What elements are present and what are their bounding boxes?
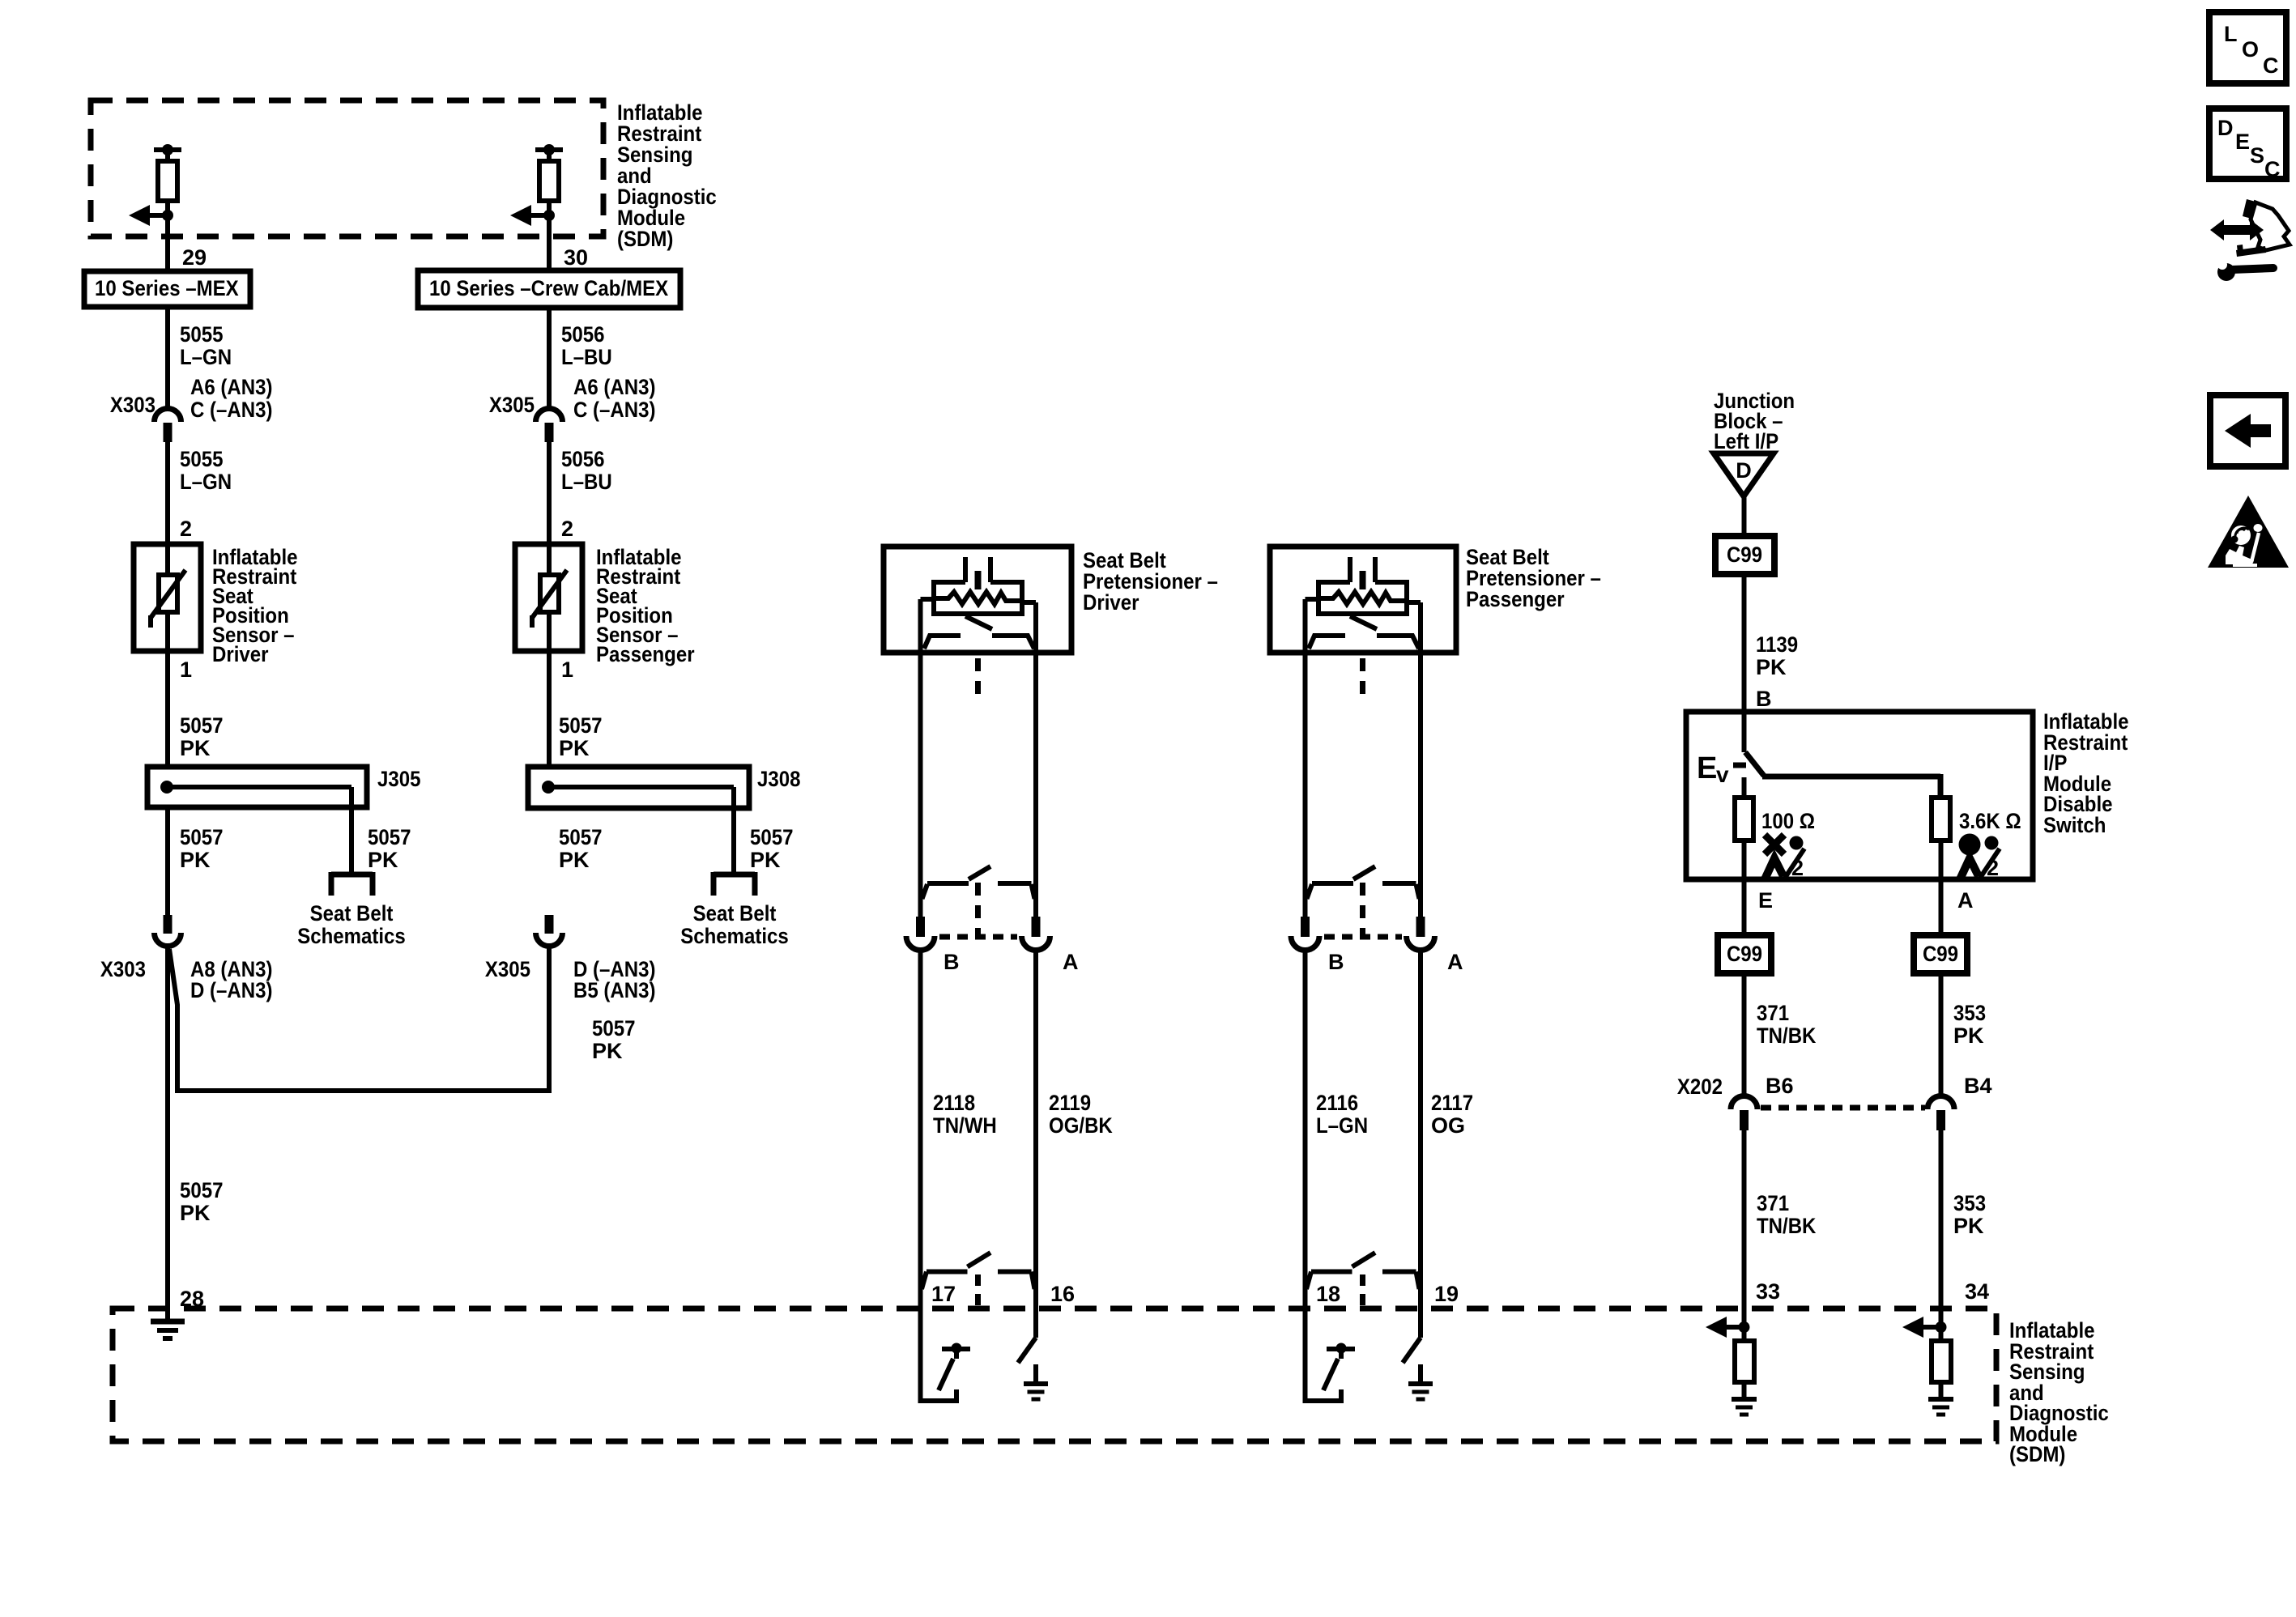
dashed link B-A passenger [1324, 934, 1402, 940]
svg-text:Schematics: Schematics [297, 924, 406, 948]
svg-text:C99: C99 [1727, 942, 1762, 966]
connector cup B driver [906, 936, 935, 951]
svg-text:PK: PK [1953, 1023, 1984, 1048]
label 5055 L-GN upper [180, 322, 232, 369]
svg-text:5055: 5055 [180, 447, 224, 471]
svg-text:371: 371 [1757, 1001, 1789, 1025]
connector cup A passenger [1407, 936, 1435, 951]
SDM bottom label [2009, 1318, 2109, 1466]
label A6 (AN3) C (-AN3) passenger [573, 375, 656, 422]
svg-text:(SDM): (SDM) [617, 227, 673, 251]
svg-text:A: A [1447, 950, 1463, 974]
wire 1139 [1742, 574, 1747, 752]
svg-text:L–BU: L–BU [561, 470, 612, 494]
svg-text:PK: PK [368, 848, 398, 872]
label 2116 L-GN [1316, 1091, 1368, 1138]
arrow at pin 30 [510, 205, 555, 226]
svg-text:Schematics: Schematics [680, 924, 789, 948]
label 371 TN/BK upper [1757, 1001, 1817, 1048]
wire pretensioner driver B [918, 599, 923, 917]
connector X305 lower [536, 915, 563, 947]
SDM switch pin 17 [939, 1343, 970, 1391]
resistor in SDM pin 30 [535, 144, 563, 201]
svg-text:2116: 2116 [1316, 1091, 1358, 1115]
svg-text:2118: 2118 [933, 1091, 975, 1115]
label 2117 OG [1431, 1091, 1473, 1138]
svg-text:Left I/P: Left I/P [1714, 429, 1778, 453]
svg-text:TN/BK: TN/BK [1757, 1214, 1817, 1238]
connector cup A driver [1022, 936, 1050, 951]
wire J305 to X303 lower [165, 807, 170, 915]
svg-text:5057: 5057 [180, 825, 224, 849]
dashed link X202 [1761, 1105, 1925, 1111]
svg-text:2119: 2119 [1049, 1091, 1091, 1115]
connector X202 B4 [1928, 1096, 1954, 1131]
wire 2117 [1418, 952, 1423, 1338]
resistor at pin 34 [1932, 1341, 1951, 1382]
label 5057 PK below J305 left [180, 825, 224, 872]
disable switch blade [1744, 752, 1941, 798]
wire 5057 driver above splice [165, 651, 170, 767]
airbag icon crossed [1765, 835, 1804, 880]
label 5057 PK driver above splice [180, 713, 224, 760]
SDM switch pin 18 [1323, 1343, 1355, 1391]
svg-text:Driver: Driver [1083, 590, 1139, 615]
svg-text:D: D [1736, 458, 1752, 483]
svg-text:C99: C99 [1727, 543, 1762, 567]
wire 2118 [921, 952, 957, 1401]
SDM top dashed box [91, 100, 603, 236]
svg-text:PK: PK [750, 848, 781, 872]
svg-text:B: B [944, 950, 960, 974]
label 5057 PK below J308 left [559, 825, 603, 872]
box 10 Series -Crew Cab/MEX [418, 270, 680, 308]
svg-text:X305: X305 [485, 957, 530, 981]
squib passenger shorting dashed [1360, 658, 1365, 937]
svg-text:PK: PK [180, 1201, 211, 1225]
svg-text:5057: 5057 [559, 713, 603, 738]
svg-text:5057: 5057 [592, 1016, 636, 1040]
label 2118 TN/WH [933, 1091, 997, 1138]
wire X305 lower to join [547, 946, 552, 1093]
svg-text:29: 29 [182, 245, 207, 270]
svg-text:B: B [1328, 950, 1344, 974]
ground at pin 34 [1928, 1382, 1953, 1415]
svg-text:J308: J308 [757, 767, 801, 791]
DESC icon box [2209, 109, 2286, 181]
arrow at pin 29 [129, 205, 173, 226]
svg-text:Passenger: Passenger [596, 642, 695, 666]
label 371 TN/BK lower [1757, 1191, 1817, 1238]
svg-text:L–BU: L–BU [561, 345, 612, 369]
svg-text:16: 16 [1050, 1282, 1075, 1306]
svg-text:C (–AN3): C (–AN3) [190, 398, 273, 422]
squib driver shorting dashed [975, 658, 981, 937]
connector X303 upper [155, 409, 181, 443]
label 353 PK lower [1953, 1191, 1986, 1238]
seat belt schematics label right [680, 901, 789, 948]
wire 2119 [1033, 952, 1038, 1338]
junction block triangle D [1714, 453, 1774, 496]
svg-text:TN/WH: TN/WH [933, 1113, 997, 1138]
component view icon double arrow [2210, 219, 2264, 240]
seat belt warning triangle [2208, 496, 2289, 568]
splice J308 [528, 767, 749, 808]
wire 371 lower [1742, 1130, 1747, 1341]
wire pretensioner driver A [1033, 602, 1038, 917]
svg-text:C: C [2264, 157, 2281, 181]
svg-text:371: 371 [1757, 1191, 1789, 1215]
ground at pin 19 [1408, 1364, 1433, 1399]
wire J305 to seat belt schematics [349, 807, 354, 874]
svg-text:2: 2 [180, 517, 192, 541]
pretensioner driver label [1083, 548, 1218, 615]
svg-text:33: 33 [1756, 1279, 1780, 1304]
svg-text:PK: PK [559, 736, 590, 760]
SDM bottom dashed box [113, 1308, 1996, 1441]
svg-text:10 Series –MEX: 10 Series –MEX [95, 276, 239, 300]
wire branch to passenger join [169, 949, 549, 1091]
svg-text:B4: B4 [1964, 1074, 1992, 1098]
wire 2116 [1306, 952, 1342, 1401]
wire 5057 passenger above splice [547, 651, 552, 767]
wire 5056 upper [547, 308, 552, 406]
svg-text:5056: 5056 [561, 322, 605, 347]
svg-text:S: S [2250, 143, 2264, 168]
sensor passenger label [596, 545, 695, 666]
svg-text:30: 30 [564, 245, 588, 270]
svg-text:17: 17 [931, 1282, 956, 1306]
wire A [1939, 840, 1944, 935]
wire E [1742, 840, 1747, 935]
label A8 (AN3) D (-AN3) [190, 957, 273, 1002]
label 5057 PK lower left [180, 1178, 224, 1225]
connector pin B passenger [1301, 917, 1310, 937]
sensor driver label [212, 545, 298, 666]
component view icon panel outline [2236, 199, 2290, 257]
svg-text:X303: X303 [100, 957, 146, 981]
pretensioner passenger box [1270, 547, 1456, 653]
svg-text:5057: 5057 [368, 825, 411, 849]
svg-text:1139: 1139 [1756, 632, 1798, 657]
svg-text:C99: C99 [1923, 942, 1958, 966]
svg-text:2: 2 [1791, 856, 1804, 880]
harness switch driver above connectors [922, 866, 1035, 899]
Ev key symbol [1697, 751, 1746, 787]
svg-text:C (–AN3): C (–AN3) [573, 398, 656, 422]
svg-text:PK: PK [1756, 655, 1787, 679]
svg-text:TN/BK: TN/BK [1757, 1023, 1817, 1048]
connector X202 B6 [1731, 1096, 1757, 1131]
svg-text:19: 19 [1434, 1282, 1459, 1306]
wire X303 lower to pin 28 [165, 946, 170, 1321]
svg-text:PK: PK [592, 1039, 623, 1063]
connector C99 top [1715, 536, 1774, 574]
connector C99 A [1914, 935, 1967, 973]
switch at pin 17 [922, 1253, 1035, 1313]
splice J305 [147, 767, 367, 807]
svg-text:PK: PK [180, 848, 211, 872]
svg-text:A: A [1957, 888, 1974, 913]
svg-text:v: v [1716, 762, 1729, 787]
junction block label [1714, 389, 1795, 453]
label 5055 L-GN lower [180, 447, 232, 494]
svg-text:Seat Belt: Seat Belt [693, 901, 777, 926]
svg-text:Seat Belt: Seat Belt [310, 901, 394, 926]
wire 353 lower [1939, 1130, 1944, 1341]
svg-text:E: E [1697, 751, 1717, 785]
resistor 100 ohm [1735, 798, 1753, 840]
svg-text:5057: 5057 [180, 1178, 224, 1202]
label 2119 OG/BK [1049, 1091, 1113, 1138]
label A6 (AN3) C (-AN3) driver [190, 375, 273, 422]
wire J308 to seat belt schematics [731, 808, 736, 874]
SDM contact pin 19 [1403, 1338, 1421, 1363]
label 5056 L-BU upper [561, 322, 612, 369]
svg-text:A6 (AN3): A6 (AN3) [573, 375, 656, 399]
SDM top label [617, 100, 717, 251]
seat belt schematics symbol left [331, 872, 373, 896]
svg-text:5055: 5055 [180, 322, 224, 347]
svg-text:X305: X305 [489, 393, 535, 417]
label 5057 PK below J305 right [368, 825, 411, 872]
LOC icon box [2209, 12, 2286, 83]
svg-text:Driver: Driver [212, 642, 269, 666]
svg-text:PK: PK [180, 736, 211, 760]
connector pin B driver [916, 917, 925, 937]
pretensioner passenger label [1466, 545, 1601, 611]
svg-text:Switch: Switch [2043, 813, 2106, 837]
svg-text:2: 2 [561, 517, 573, 541]
label 5057 PK below J308 right [750, 825, 794, 872]
wire 5056 lower [547, 442, 552, 544]
connector pin A driver [1032, 917, 1041, 937]
svg-text:5057: 5057 [180, 713, 224, 738]
wire 5055 upper [165, 307, 170, 406]
wire pretensioner passenger B [1303, 599, 1308, 917]
resistor in SDM pin 29 [154, 144, 181, 201]
seat position sensor passenger box [515, 544, 582, 651]
ground at pin 33 [1732, 1382, 1757, 1415]
svg-text:J305: J305 [377, 767, 421, 791]
svg-text:353: 353 [1953, 1191, 1986, 1215]
svg-text:5057: 5057 [559, 825, 603, 849]
label D (-AN3) B5 (AN3) [573, 957, 656, 1002]
svg-text:L: L [2224, 22, 2238, 46]
svg-text:5057: 5057 [750, 825, 794, 849]
seat position sensor driver box [134, 544, 201, 651]
svg-text:B6: B6 [1766, 1074, 1794, 1098]
resistor at pin 33 [1735, 1341, 1754, 1382]
disable switch box [1686, 712, 2033, 879]
label 1139 PK [1756, 632, 1798, 679]
harness switch passenger above connectors [1307, 866, 1420, 899]
svg-text:O: O [2242, 37, 2259, 62]
svg-text:10 Series –Crew Cab/MEX: 10 Series –Crew Cab/MEX [429, 276, 668, 300]
arrow at pin 34 [1902, 1317, 1947, 1338]
svg-text:C: C [2263, 53, 2279, 78]
svg-text:PK: PK [1953, 1214, 1984, 1238]
component view icon wrench [2217, 260, 2273, 281]
svg-text:5056: 5056 [561, 447, 605, 471]
connector X303 lower [155, 915, 181, 947]
seat belt schematics label left [297, 901, 406, 948]
airbag icon solid [1959, 834, 2000, 881]
svg-text:E: E [2235, 130, 2250, 154]
connector X305 upper [536, 409, 563, 443]
connector C99 E [1718, 935, 1771, 973]
ground at pin 28 [151, 1321, 185, 1338]
svg-text:353: 353 [1953, 1001, 1986, 1025]
wire 353 upper [1939, 973, 1944, 1096]
resistor 3.6K ohm [1932, 798, 1950, 840]
svg-text:D: D [2217, 116, 2234, 140]
svg-text:100 Ω: 100 Ω [1761, 809, 1815, 833]
svg-text:X202: X202 [1677, 1074, 1723, 1099]
squib passenger [1306, 557, 1421, 649]
label 353 PK upper [1953, 1001, 1986, 1048]
svg-text:1: 1 [180, 657, 192, 682]
label 5056 L-BU lower [561, 447, 612, 494]
svg-text:Passenger: Passenger [1466, 587, 1565, 611]
svg-text:B5 (AN3): B5 (AN3) [573, 978, 656, 1002]
svg-text:OG/BK: OG/BK [1049, 1113, 1113, 1138]
wire 5055 lower [165, 442, 170, 544]
connector pin A passenger [1416, 917, 1425, 937]
box 10 Series -MEX [84, 271, 250, 307]
svg-text:34: 34 [1965, 1279, 1989, 1304]
wire pin 30 to 10 Series box [547, 201, 552, 270]
wire pin 29 to 10 Series box [165, 201, 170, 279]
SDM contact pin 16 [1018, 1338, 1036, 1363]
svg-text:L–GN: L–GN [180, 470, 232, 494]
svg-text:(SDM): (SDM) [2009, 1442, 2065, 1466]
svg-text:A: A [1063, 950, 1079, 974]
dashed link B-A driver [939, 934, 1017, 940]
svg-text:E: E [1758, 888, 1773, 913]
svg-text:3.6K Ω: 3.6K Ω [1959, 809, 2021, 833]
svg-text:A6 (AN3): A6 (AN3) [190, 375, 273, 399]
connector cup B passenger [1291, 936, 1319, 951]
disable switch label [2043, 709, 2129, 837]
ground at pin 16 [1024, 1364, 1048, 1399]
squib driver [921, 557, 1037, 649]
wire triangle to C99 [1742, 496, 1747, 536]
arrow at pin 33 [1706, 1317, 1750, 1338]
svg-text:18: 18 [1316, 1282, 1340, 1306]
svg-text:OG: OG [1431, 1113, 1465, 1138]
back arrow icon box [2210, 395, 2285, 466]
label 5057 PK passenger above splice [559, 713, 603, 760]
svg-text:D (–AN3): D (–AN3) [190, 978, 273, 1002]
svg-text:X303: X303 [110, 393, 155, 417]
wire pretensioner passenger A [1418, 602, 1423, 917]
svg-text:2: 2 [1987, 856, 1999, 880]
svg-text:B: B [1756, 687, 1772, 711]
svg-text:1: 1 [561, 657, 573, 682]
svg-text:PK: PK [559, 848, 590, 872]
svg-text:L–GN: L–GN [1316, 1113, 1368, 1138]
seat belt schematics symbol right [714, 872, 755, 896]
svg-text:L–GN: L–GN [180, 345, 232, 369]
pretensioner driver box [884, 547, 1071, 653]
wire 371 upper [1742, 973, 1747, 1096]
switch at pin 18 [1306, 1253, 1420, 1313]
svg-text:2117: 2117 [1431, 1091, 1473, 1115]
label 5057 PK join [592, 1016, 636, 1063]
